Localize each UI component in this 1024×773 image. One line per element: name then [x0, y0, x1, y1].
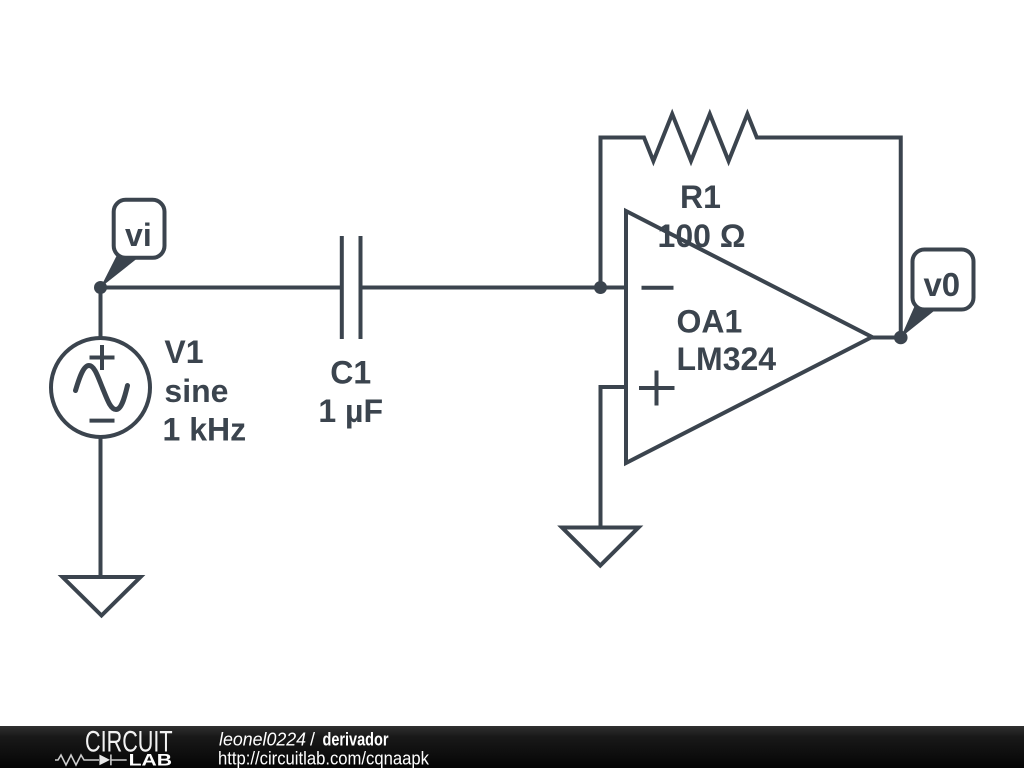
V1 plus sign	[90, 345, 115, 370]
svg-text:derivador: derivador	[323, 729, 389, 749]
wire V1 bottom lead	[99, 435, 103, 577]
svg-text:http://circuitlab.com/cqnaapk: http://circuitlab.com/cqnaapk	[218, 748, 430, 768]
voltage source V1 circle	[51, 338, 150, 437]
node vi junction dot	[94, 281, 107, 294]
wire C1 right plate to op-amp inverting input	[361, 286, 627, 290]
wire op-amp non-inverting input to ground	[601, 387, 627, 528]
svg-text:1 kHz: 1 kHz	[163, 412, 247, 448]
svg-text:LM324: LM324	[677, 341, 777, 377]
op-amp minus sign	[642, 286, 674, 290]
node v0 flag box	[913, 250, 974, 310]
svg-text:leonel0224: leonel0224	[219, 729, 306, 749]
ground under op-amp	[562, 528, 639, 566]
node v0 flag pointer	[901, 303, 944, 338]
svg-text:1 µF: 1 µF	[318, 393, 383, 429]
svg-text:100 Ω: 100 Ω	[658, 218, 746, 254]
node v0 junction dot	[894, 331, 908, 345]
V1 minus sign	[90, 419, 115, 423]
svg-text:vi: vi	[125, 217, 152, 253]
svg-text:OA1: OA1	[677, 304, 743, 340]
svg-text:C1: C1	[330, 354, 371, 390]
CircuitLab logo diode	[99, 755, 110, 766]
wire V1 top lead	[99, 288, 103, 341]
node vi flag pointer	[101, 253, 145, 288]
op-amp plus sign	[639, 371, 675, 406]
svg-text:sine: sine	[164, 373, 228, 409]
svg-text:R1: R1	[680, 179, 721, 215]
footer bar	[0, 726, 1024, 768]
svg-text:/: /	[310, 729, 315, 749]
op-amp U1 triangle	[626, 211, 872, 463]
wire op-amp output	[868, 336, 901, 340]
capacitor C1 plates	[342, 236, 361, 339]
svg-text:V1: V1	[164, 334, 203, 370]
node at inverting input junction dot	[594, 281, 607, 294]
feedback wire with resistor R1 zigzag	[601, 114, 901, 338]
svg-text:LAB: LAB	[129, 751, 173, 768]
ground under V1	[63, 577, 141, 616]
svg-text:v0: v0	[923, 266, 960, 303]
CircuitLab logo resistor-diode wire	[55, 755, 127, 766]
wire vi node to C1 left plate	[101, 286, 341, 290]
node vi flag box	[114, 200, 165, 258]
V1 sine symbol	[76, 366, 128, 410]
